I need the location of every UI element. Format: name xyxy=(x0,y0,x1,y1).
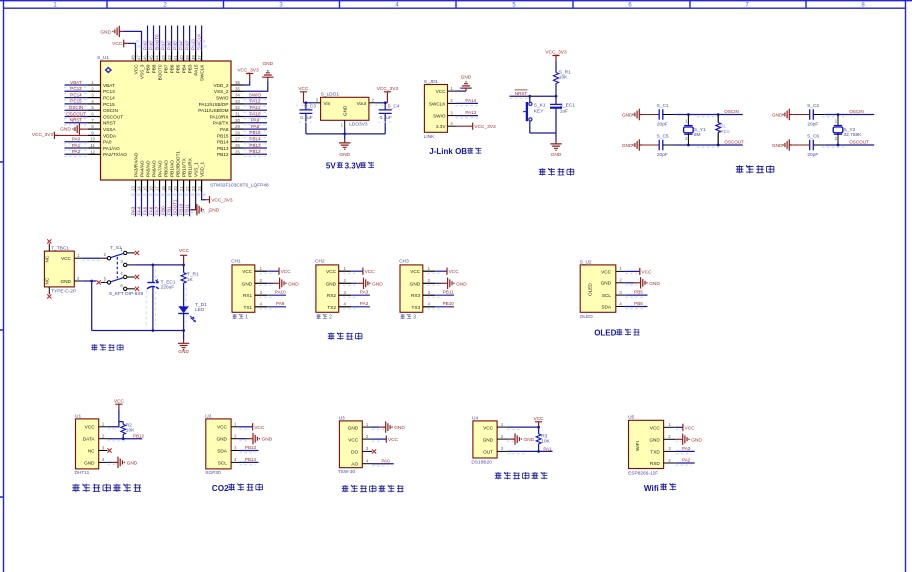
svg-text:VCC: VCC xyxy=(112,41,123,47)
svg-text:GND: GND xyxy=(84,460,95,465)
power VCC_3V3 output xyxy=(377,86,399,103)
svg-text:GND: GND xyxy=(216,437,227,442)
svg-text:DATA: DATA xyxy=(83,437,96,442)
svg-text:GND: GND xyxy=(456,281,467,287)
svg-text:PB15: PB15 xyxy=(217,133,229,138)
svg-text:OLED: OLED xyxy=(588,283,593,296)
capacitor S_C5 20pF xyxy=(657,134,675,159)
svg-text:S_KFT DIP-8X8: S_KFT DIP-8X8 xyxy=(109,291,144,297)
MCU pin 47 VSS_3 xyxy=(137,52,145,80)
wire net PA10 xyxy=(244,111,268,118)
svg-text:5V: 5V xyxy=(326,162,336,171)
svg-text:VDDA: VDDA xyxy=(103,133,117,138)
svg-text:19: 19 xyxy=(167,186,172,191)
wire net PA1 on OUT xyxy=(507,447,552,454)
svg-text:OSCOUT: OSCOUT xyxy=(724,139,744,144)
svg-text:PA10/RX: PA10/RX xyxy=(210,114,230,119)
svg-text:PB0/AO: PB0/AO xyxy=(163,160,168,177)
svg-text:VSS_1: VSS_1 xyxy=(193,162,198,177)
MCU pin 35 VSS_2 xyxy=(214,86,244,94)
svg-text:TX1: TX1 xyxy=(243,305,252,310)
svg-text:32: 32 xyxy=(235,105,240,110)
caption wifi module xyxy=(644,483,676,493)
svg-text:VCC: VCC xyxy=(281,269,292,275)
MCU pin 11 PA1/AO xyxy=(88,143,120,151)
svg-text:S_C5: S_C5 xyxy=(657,134,669,140)
ground at CH2 pin 2 xyxy=(343,278,383,289)
caption CO2 module xyxy=(212,484,263,494)
zone numbers xyxy=(53,3,865,9)
svg-text:VCC_3V3: VCC_3V3 xyxy=(211,198,233,204)
svg-text:GND: GND xyxy=(209,208,220,214)
svg-text:PA9: PA9 xyxy=(251,118,260,123)
module U5 ESP8266 wifi xyxy=(628,415,664,477)
wire net OSCOUT xyxy=(64,111,88,118)
svg-text:PA13: PA13 xyxy=(465,110,476,115)
svg-text:47: 47 xyxy=(137,55,142,60)
svg-text:VCC: VCC xyxy=(650,425,661,430)
wire net PB11 xyxy=(427,290,454,298)
svg-text:GND: GND xyxy=(262,61,273,67)
svg-text:R2: R2 xyxy=(126,422,132,428)
wire net PC13 xyxy=(64,86,88,93)
CH3 pin 1 xyxy=(423,266,435,271)
svg-text:VCC: VCC xyxy=(410,269,421,274)
DS18B20 pin 2 xyxy=(497,434,507,439)
svg-text:NRST: NRST xyxy=(103,121,116,126)
crystal circuit 2: ground bottom-left xyxy=(772,139,810,150)
svg-text:PA14: PA14 xyxy=(465,98,476,103)
svg-text:OSCOUT: OSCOUT xyxy=(103,114,123,119)
resistor R3 10K pull-up xyxy=(536,427,550,451)
wire net PA0 on AO xyxy=(372,458,394,466)
svg-text:32.768K: 32.768K xyxy=(844,132,863,138)
caption temperature-humidity module xyxy=(72,484,141,492)
wire net PA4 xyxy=(136,192,141,216)
svg-text:CH3: CH3 xyxy=(399,259,409,265)
caption OLED display xyxy=(594,328,639,337)
svg-text:PB14: PB14 xyxy=(217,140,229,145)
svg-text:PC15: PC15 xyxy=(103,102,115,107)
svg-text:GND: GND xyxy=(461,75,472,81)
SGP30 pin 2 xyxy=(231,434,239,439)
MCU pin 29 PA8 xyxy=(220,124,244,132)
svg-text:3: 3 xyxy=(413,315,416,321)
MCU pin 3 PC14 xyxy=(88,93,115,101)
svg-text:SDA: SDA xyxy=(217,448,228,453)
svg-text:20: 20 xyxy=(173,186,178,191)
JD1 pin 3 xyxy=(448,110,456,115)
wire net PA13 xyxy=(456,110,479,118)
CH2 pin 1 xyxy=(339,266,351,271)
svg-text:2: 2 xyxy=(329,315,332,321)
svg-text:PA2: PA2 xyxy=(682,458,691,463)
svg-text:220uF: 220uF xyxy=(161,285,175,291)
svg-text:26: 26 xyxy=(235,143,240,148)
wire net VBAT xyxy=(64,80,88,87)
svg-text:28: 28 xyxy=(235,130,240,135)
svg-text:SWCLK: SWCLK xyxy=(429,101,447,106)
svg-text:PB7: PB7 xyxy=(163,64,168,73)
svg-text:T_TBC1: T_TBC1 xyxy=(51,246,69,252)
caption power circuit xyxy=(91,344,123,351)
wire net PB12 xyxy=(244,149,268,156)
svg-text:PA7: PA7 xyxy=(154,206,159,215)
svg-text:PA4/AO: PA4/AO xyxy=(139,160,144,177)
svg-text:Vin: Vin xyxy=(324,101,331,106)
svg-text:U2: U2 xyxy=(205,413,211,419)
wire net PA14 xyxy=(456,98,479,106)
wire net PA3 xyxy=(343,290,370,298)
svg-text:SWIO: SWIO xyxy=(249,92,262,97)
svg-text:S_EC1: S_EC1 xyxy=(560,102,576,108)
svg-text:U5: U5 xyxy=(628,415,634,421)
svg-text:S_JD1: S_JD1 xyxy=(424,79,439,85)
wire net PB10 xyxy=(427,301,454,309)
svg-text:PA3: PA3 xyxy=(130,206,135,215)
svg-text:LINK: LINK xyxy=(424,134,435,140)
OLED module S_U2 xyxy=(580,259,616,320)
svg-text:GND: GND xyxy=(262,437,273,443)
svg-text:PB6: PB6 xyxy=(634,301,643,306)
caption crystal circuit xyxy=(736,165,774,173)
svg-text:10K: 10K xyxy=(559,75,568,81)
svg-text:ESP8266-12F: ESP8266-12F xyxy=(628,470,658,476)
svg-text:11: 11 xyxy=(90,143,95,148)
wire net PA3 xyxy=(130,192,135,216)
MCU pin 28 PB15 xyxy=(217,130,243,138)
wire net PB6 xyxy=(625,301,647,309)
svg-text:S_U2: S_U2 xyxy=(580,259,592,265)
svg-text:PB13: PB13 xyxy=(217,146,229,151)
wire net PA7 xyxy=(154,192,159,216)
MCU pin 41 PB5 xyxy=(173,52,181,74)
MCU pin 12 PA2/TX/AO xyxy=(88,149,127,157)
MCU pin 48 VCC xyxy=(131,52,139,75)
MCU pin 15 PA5/AO xyxy=(143,160,151,192)
MCU pin 32 PA11/USB/DM xyxy=(198,105,243,113)
svg-text:46: 46 xyxy=(143,55,148,60)
power VCC at MCU pin 48 xyxy=(112,40,135,52)
wire net PA9 xyxy=(244,118,268,125)
svg-text:PA2: PA2 xyxy=(360,301,369,306)
svg-text:U1: U1 xyxy=(75,413,81,419)
wire net PB3 xyxy=(184,26,189,52)
TSW-30 pin 3 xyxy=(362,446,372,451)
svg-text:PC14: PC14 xyxy=(70,92,82,97)
power VCC at CH1 pin 1 xyxy=(259,268,291,276)
OLED pin 1 xyxy=(616,266,626,271)
svg-text:S_R1: S_R1 xyxy=(559,69,571,75)
svg-text:NC: NC xyxy=(45,277,50,284)
ground of reset circuit xyxy=(550,141,562,158)
MCU pin 34 SWIO xyxy=(216,93,244,101)
caption 5V to 3.3V circuit xyxy=(326,162,374,171)
svg-text:PB3: PB3 xyxy=(187,64,192,73)
capacitor S_C3 0.1uF xyxy=(299,103,316,134)
wire net PB9 xyxy=(142,26,147,52)
crystal circuit 2: ground top-left xyxy=(772,109,810,120)
wire net PB11 xyxy=(184,192,189,216)
power VCC_3V3 at MCU pin 9 VDDA xyxy=(32,132,88,139)
svg-text:VCC: VCC xyxy=(449,269,460,275)
svg-text:PC14: PC14 xyxy=(103,96,115,101)
sensor U4 DS18B20 xyxy=(471,415,497,465)
caption reset circuit xyxy=(539,168,574,175)
svg-text:PA3: PA3 xyxy=(682,446,691,451)
CH3 pin 2 xyxy=(423,278,435,283)
svg-text:S_LDO1: S_LDO1 xyxy=(321,92,340,98)
connector CH3 serial header xyxy=(399,259,423,313)
MCU pin 43 PB7 xyxy=(161,52,169,74)
MCU pin 5 OSCIN xyxy=(88,105,118,113)
ground at ESP8266 pin 2 xyxy=(676,434,703,445)
svg-text:PA12: PA12 xyxy=(250,99,261,104)
DHT11 pin 2 xyxy=(99,434,108,439)
MCU pin 27 PB14 xyxy=(217,137,243,145)
svg-text:SCL: SCL xyxy=(218,460,228,465)
CH2 pin 2 xyxy=(339,278,351,283)
svg-text:VCC: VCC xyxy=(685,425,696,431)
ground at MCU pin 23 xyxy=(191,192,220,215)
wire net PA8 xyxy=(244,124,268,131)
CH1 pin 3 xyxy=(255,290,267,295)
wire net PB8 xyxy=(148,26,153,52)
svg-text:SWCLK: SWCLK xyxy=(199,64,204,82)
power VCC top right xyxy=(179,248,190,265)
svg-text:VCC: VCC xyxy=(326,269,337,274)
svg-text:RX3: RX3 xyxy=(411,293,421,298)
svg-text:OSCIN: OSCIN xyxy=(69,105,84,110)
svg-text:GND: GND xyxy=(410,281,421,286)
svg-text:PB11: PB11 xyxy=(443,290,454,295)
TSW-30 pin 2 xyxy=(362,434,372,439)
wire net PB7 xyxy=(160,26,165,52)
power VCC_3V3 top of reset xyxy=(545,50,567,62)
CH2 pin 4 xyxy=(339,301,351,306)
TBC1 bottom stub with no-ERC xyxy=(47,287,51,299)
ground at DHT11 pin 4 xyxy=(107,457,137,468)
svg-text:GND: GND xyxy=(242,281,253,286)
svg-text:39: 39 xyxy=(185,55,190,60)
svg-text:VDD_2: VDD_2 xyxy=(213,83,229,88)
MCU pin 6 OSCOUT xyxy=(88,112,123,120)
wire ghost marks ldo xyxy=(296,105,391,122)
DHT11 pin 1 xyxy=(99,422,108,427)
wire bottom rail to GND xyxy=(306,128,385,140)
svg-text:1K: 1K xyxy=(187,277,194,283)
sensor U3 TSW-30 turbidity xyxy=(338,415,363,475)
ground at CH3 pin 2 xyxy=(427,278,467,289)
svg-text:20pF: 20pF xyxy=(807,122,818,128)
svg-text:GND: GND xyxy=(60,126,71,132)
svg-text:OSCIN: OSCIN xyxy=(724,109,739,114)
svg-text:Wifi: Wifi xyxy=(644,484,659,493)
MCU pin 13 PA3/RX/AO xyxy=(131,152,139,192)
LED T_D1 xyxy=(178,302,207,331)
svg-text:PC13: PC13 xyxy=(70,86,82,91)
svg-text:VCC_3V3: VCC_3V3 xyxy=(545,50,567,56)
svg-text:PB14: PB14 xyxy=(245,457,257,462)
MCU U1 STM32F103C8T6 xyxy=(97,55,269,188)
svg-text:NRST: NRST xyxy=(515,91,528,96)
switch stubs and no-ERC marks xyxy=(97,251,140,291)
svg-text:OSCOUT: OSCOUT xyxy=(66,111,86,116)
capacitor S_C4 0.1uF xyxy=(379,103,400,134)
svg-text:OSCIN: OSCIN xyxy=(103,108,118,113)
wire net BOOT1 xyxy=(172,192,177,216)
svg-text:35: 35 xyxy=(235,86,240,91)
svg-text:VCC: VCC xyxy=(85,425,96,430)
svg-text:PA10: PA10 xyxy=(275,290,286,295)
MCU pin 4 PC15 xyxy=(88,99,115,107)
wire net BOOT0 xyxy=(154,26,159,52)
svg-text:TX2: TX2 xyxy=(327,305,336,310)
MCU pin 19 PB1/AO xyxy=(167,160,175,192)
svg-text:DS18B20: DS18B20 xyxy=(471,459,492,465)
wire net PA0 xyxy=(64,137,88,144)
wire net OSCIN xyxy=(64,105,88,112)
MCU pin 30 PA9/TX xyxy=(213,118,244,126)
svg-text:DO: DO xyxy=(351,449,358,454)
ground at CH1 pin 2 xyxy=(259,278,299,289)
wire net PB6 xyxy=(166,26,171,52)
svg-text:PB0: PB0 xyxy=(160,206,165,215)
TBC1 pin 1 VCC xyxy=(74,253,82,258)
JD1 pin 4 xyxy=(448,121,456,126)
svg-text:VCC: VCC xyxy=(179,248,190,254)
wire ghost band bottom xyxy=(131,195,210,213)
svg-text:SGP30: SGP30 xyxy=(205,470,221,476)
wire net PA3 on TXD xyxy=(676,446,695,454)
svg-text:PC13: PC13 xyxy=(103,89,115,94)
MCU pin 10 PA0 xyxy=(88,137,112,145)
svg-text:GND: GND xyxy=(127,460,138,466)
ground at SGP30 pin 2 xyxy=(240,433,273,444)
TSW-30 pin 4 xyxy=(362,459,372,464)
svg-text:PB5: PB5 xyxy=(634,290,643,295)
svg-text:21: 21 xyxy=(179,186,184,191)
ESP8266 pin 1 xyxy=(664,422,676,427)
MCU pin 37 SWCLK xyxy=(197,52,205,82)
svg-text:GND: GND xyxy=(772,143,783,149)
wire bottom of reset xyxy=(530,133,556,141)
MCU pin 36 VDD_2 xyxy=(213,80,243,88)
svg-text:18: 18 xyxy=(161,186,166,191)
svg-text:3.3V: 3.3V xyxy=(436,124,447,129)
wire ghost band top xyxy=(136,41,207,46)
svg-text:PA0: PA0 xyxy=(103,140,112,145)
capacitor S_C6 20pF xyxy=(807,134,824,159)
wire VCC to Vin xyxy=(304,102,313,104)
svg-text:PA11: PA11 xyxy=(250,105,261,110)
JD1 pin 1 xyxy=(448,86,456,91)
MCU pin 42 PB6 xyxy=(167,52,175,74)
MCU pin 16 PA6/AO xyxy=(149,160,157,192)
svg-text:GND: GND xyxy=(622,113,633,119)
svg-text:PA10: PA10 xyxy=(250,111,261,116)
svg-text:1: 1 xyxy=(245,315,248,321)
ground of power circuit xyxy=(178,340,190,355)
connector CH2 serial header xyxy=(315,259,339,313)
connector CH1 serial header xyxy=(231,259,255,313)
svg-text:CH2: CH2 xyxy=(315,259,325,265)
wire bottom rail xyxy=(92,329,185,340)
svg-text:PA2: PA2 xyxy=(72,149,81,154)
svg-text:BOOT0: BOOT0 xyxy=(157,64,162,80)
power VCC at CH3 pin 1 xyxy=(427,268,459,276)
svg-text:SWIO: SWIO xyxy=(433,114,446,119)
svg-text:U4: U4 xyxy=(472,415,478,421)
svg-text:12: 12 xyxy=(90,149,95,154)
ground at JD1 pin 1 xyxy=(456,75,472,92)
svg-text:T_EC1: T_EC1 xyxy=(161,279,176,285)
ground at DS18B20 pin 2 xyxy=(507,433,535,444)
wire net PA1 xyxy=(64,143,88,150)
svg-text:J-Link OB: J-Link OB xyxy=(429,147,467,156)
TBC1 pin 2 GND xyxy=(74,276,82,281)
OLED pin 4 xyxy=(616,301,626,306)
svg-text:PA12/USB/DP: PA12/USB/DP xyxy=(199,102,229,107)
power VCC top of DHT11 xyxy=(114,399,125,410)
svg-text:S_U1: S_U1 xyxy=(97,55,109,61)
key switch S_K1 KEY xyxy=(523,96,546,133)
svg-text:0.1uF: 0.1uF xyxy=(380,115,392,121)
sensor U2 SGP30 CO2 xyxy=(205,413,231,476)
svg-text:GND: GND xyxy=(343,105,348,116)
svg-text:S_C6: S_C6 xyxy=(807,134,819,140)
wire net PB15 xyxy=(244,130,268,137)
MCU pin 39 PB3 xyxy=(185,52,193,74)
svg-text:44: 44 xyxy=(155,55,160,60)
MCU pin 2 PC13 xyxy=(88,86,115,94)
crystal circuit 1: ground top-left xyxy=(622,109,660,120)
svg-text:R1: R1 xyxy=(720,124,726,129)
wire OSCIN rail 1 xyxy=(674,109,742,117)
svg-text:RES: RES xyxy=(720,129,729,134)
wire NRST node xyxy=(510,90,558,99)
svg-text:VCC_3V3: VCC_3V3 xyxy=(474,124,496,130)
LDO pin 3 (Vin) xyxy=(313,98,321,103)
svg-text:PA7/AO: PA7/AO xyxy=(157,160,162,177)
svg-text:PB12: PB12 xyxy=(249,149,261,154)
svg-text:PB13: PB13 xyxy=(245,445,257,450)
svg-text:GND: GND xyxy=(601,281,612,286)
OLED pin 2 xyxy=(616,278,626,283)
wire OSCIN rail 2 xyxy=(822,109,874,117)
svg-text:VCC: VCC xyxy=(601,269,612,274)
svg-text:VCC: VCC xyxy=(641,269,652,275)
wire net PB10 xyxy=(178,192,183,216)
ground at OLED pin 2 xyxy=(625,277,660,288)
caption turbidity module xyxy=(342,485,404,492)
svg-text:T_R1: T_R1 xyxy=(187,272,199,278)
wire net PA2 xyxy=(64,149,88,156)
svg-text:40: 40 xyxy=(179,55,184,60)
svg-text:PB1/AO: PB1/AO xyxy=(169,160,174,177)
svg-text:10: 10 xyxy=(90,137,95,142)
ESP8266 pin 2 xyxy=(664,434,676,439)
svg-text:PA1: PA1 xyxy=(72,143,81,148)
wire switch contact 3 to VCC rail xyxy=(127,264,185,267)
svg-text:30: 30 xyxy=(235,118,240,123)
label serial port 1 xyxy=(233,314,249,321)
wire net PA2 xyxy=(343,301,370,309)
svg-text:43: 43 xyxy=(161,55,166,60)
svg-text:VSS_3: VSS_3 xyxy=(139,64,144,79)
connector S_JD1 J-Link xyxy=(424,79,448,140)
power VCC at TSW-30 pin 2 xyxy=(372,436,399,444)
